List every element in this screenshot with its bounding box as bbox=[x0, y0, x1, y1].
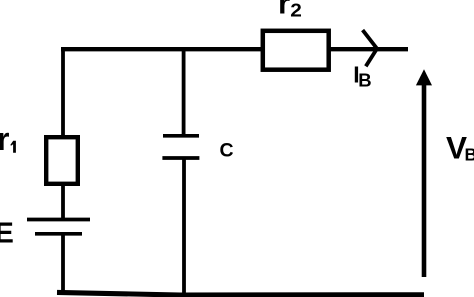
wire top horizontal from node A to resistor r2 bbox=[61, 47, 262, 51]
svg-text:B: B bbox=[358, 70, 371, 91]
wire from battery E to bottom rail bbox=[61, 234, 65, 294]
battery E short plate bbox=[35, 232, 82, 236]
svg-text:2: 2 bbox=[290, 0, 302, 20]
svg-text:r: r bbox=[0, 121, 9, 157]
battery E long plate bbox=[27, 218, 90, 222]
current arrow IB chevron bbox=[363, 30, 377, 66]
resistor r2 bbox=[263, 31, 329, 70]
capacitor C top plate bbox=[163, 134, 199, 138]
svg-text:C: C bbox=[220, 140, 234, 162]
wire left vertical from top node down to resistor r1 bbox=[61, 47, 65, 137]
wire bottom rail bbox=[57, 292, 424, 295]
svg-text:B: B bbox=[465, 144, 474, 164]
svg-text:E: E bbox=[0, 217, 14, 249]
wire middle vertical from top rail to capacitor C bbox=[182, 47, 186, 137]
wire from resistor r1 to battery E bbox=[61, 183, 65, 218]
resistor r1 bbox=[46, 137, 78, 184]
wire from capacitor C to bottom rail bbox=[182, 157, 186, 295]
voltage arrow VB head bbox=[416, 69, 432, 85]
svg-text:r: r bbox=[278, 0, 290, 21]
voltage arrow VB shaft bbox=[422, 84, 427, 277]
wire from resistor r2 to output bbox=[329, 47, 408, 51]
capacitor C bottom plate bbox=[162, 156, 199, 160]
